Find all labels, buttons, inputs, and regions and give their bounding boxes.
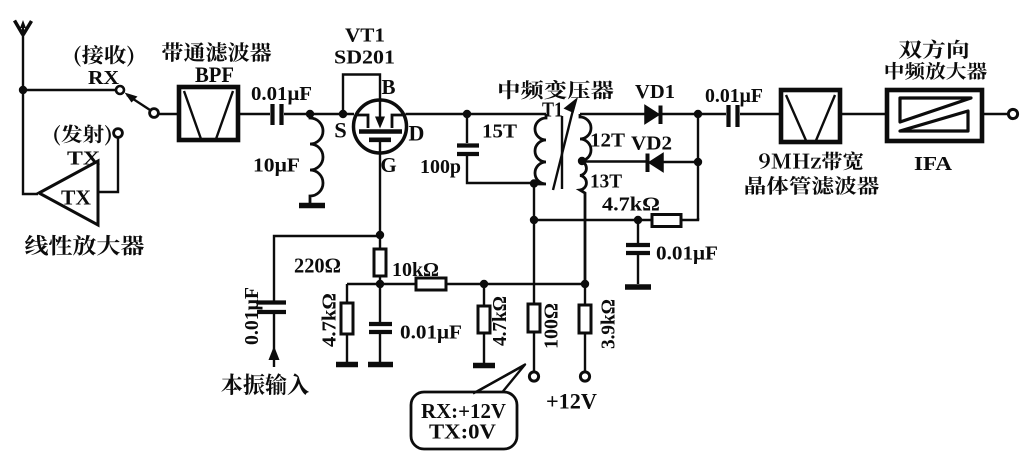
filter 9MHz crystal filter box (781, 90, 840, 142)
ground (4.7kΩ left) (336, 362, 358, 368)
junction S/B node (339, 110, 347, 118)
capacitor 0.01μF gate bypass (379, 284, 381, 322)
junction secondary tap (578, 157, 586, 165)
svg-text:TX: TX (61, 186, 91, 210)
svg-text:0.01μF: 0.01μF (705, 85, 763, 107)
label (接收) (75, 45, 134, 67)
diode VD2 (649, 154, 663, 172)
label 晶体管滤波器 (745, 176, 878, 195)
TX input terminal (114, 129, 123, 138)
callout bubble RX:+12V TX:0V (411, 392, 517, 449)
label 中频变压器 (499, 80, 613, 99)
svg-text:TX:0V: TX:0V (429, 420, 496, 444)
wire R5 to right bus (681, 218, 698, 220)
junction primary bottom node (530, 179, 538, 187)
svg-text:0.01μF: 0.01μF (400, 322, 462, 344)
junction 3.9k node (581, 280, 589, 288)
label 双方向 (899, 40, 969, 59)
svg-text:0.01μF: 0.01μF (656, 243, 718, 265)
svg-text:IFA: IFA (914, 153, 953, 175)
wire B electrode loop to S node (343, 75, 380, 115)
junction LO injection node (376, 231, 384, 239)
capacitor C1 0.01μF (273, 104, 282, 125)
junction 0.01μF (C3) tap (634, 216, 642, 224)
wire VD1 node to C4 (698, 113, 726, 115)
capacitor C4 0.01μF (729, 105, 738, 127)
capacitor 100p (466, 114, 468, 143)
transformer core (561, 116, 563, 189)
amplifier IFA box (887, 90, 982, 141)
label 9MHz带宽 (759, 152, 863, 171)
filter BPF box (179, 87, 238, 140)
svg-text:4.7kΩ: 4.7kΩ (602, 194, 660, 216)
LO input lead with arrow (273, 314, 275, 367)
junction bias row left (530, 216, 538, 224)
svg-text:220Ω: 220Ω (294, 254, 341, 278)
control terminal (RX/TX voltage) (529, 372, 538, 381)
wire tap to VD2 (582, 160, 646, 162)
svg-text:G: G (380, 153, 396, 177)
resistor 3.9kΩ vertical (584, 284, 586, 371)
switch RX fixed contact (116, 86, 124, 94)
tuning arrow through transformer (553, 106, 574, 190)
wire C1 to MOSFET source (284, 113, 354, 115)
svg-text:D: D (409, 121, 425, 146)
label 带通滤波器 (162, 42, 271, 62)
svg-text:+12V: +12V (546, 389, 597, 414)
resistor 100Ω vertical (533, 304, 535, 371)
capacitor C3 0.01μF (637, 220, 639, 243)
wire C4 to crystal filter (740, 113, 779, 115)
wire switch pole to BPF (159, 113, 177, 115)
label 线性放大器 (25, 235, 144, 256)
svg-text:4.7kΩ: 4.7kΩ (319, 293, 341, 347)
junction choke node (306, 110, 314, 118)
svg-text:SD201: SD201 (334, 47, 395, 69)
amplifier 线性放大器 (TX linear amp) triangle (39, 161, 98, 225)
svg-text:10μF: 10μF (253, 155, 300, 177)
switch pole terminal (150, 109, 159, 118)
svg-text:BPF: BPF (195, 62, 234, 87)
junction gate bias node (376, 280, 384, 288)
label 中频放大器 (886, 62, 987, 80)
inductor 10μF choke (310, 114, 323, 203)
ground (C3) (625, 284, 651, 290)
svg-text:3.9kΩ: 3.9kΩ (598, 299, 620, 349)
MOSFET internals: S/D leads, channel, bulk arrow, gate (355, 100, 405, 152)
wire antenna node down to TX amp input (23, 90, 38, 194)
transistor VT1 MOSFET body circle (354, 100, 407, 153)
svg-text:100Ω: 100Ω (541, 303, 563, 349)
wire TX terminal to amp output (98, 138, 118, 193)
output terminal (1008, 109, 1017, 118)
wire antenna node to RX switch contact (23, 89, 115, 91)
svg-text:RX: RX (88, 67, 120, 89)
junction right 4.7k node (480, 280, 488, 288)
wire primary-bottom bus down (533, 183, 535, 304)
svg-text:4.7kΩ: 4.7kΩ (489, 296, 511, 346)
svg-text:0.01μF: 0.01μF (241, 287, 263, 345)
wire bias rail (347, 283, 586, 285)
label (发射) (54, 125, 111, 146)
junction 100p node (463, 110, 471, 118)
resistor 4.7kΩ left vertical (346, 284, 348, 303)
antenna (15, 20, 32, 35)
resistor 4.7kΩ right vertical (483, 284, 485, 306)
capacitor 0.01μF LO coupling (257, 303, 286, 313)
ground (4.7kΩ right) (473, 363, 495, 369)
wire BPF to C1 (240, 113, 270, 115)
resistor 10kΩ horizontal (416, 278, 446, 290)
svg-text:100p: 100p (420, 156, 461, 178)
resistor 220Ω vertical (374, 249, 386, 276)
svg-text:VD2: VD2 (631, 133, 672, 155)
svg-text:12T: 12T (590, 130, 626, 152)
svg-text:VD1: VD1 (635, 81, 675, 103)
wire secondary top to VD1 (580, 113, 645, 115)
wire LO coupling to gate node (274, 236, 380, 303)
resistor R5 4.7kΩ horizontal (652, 215, 681, 227)
wire bias row (534, 219, 652, 221)
wire filter to IFA (840, 113, 885, 115)
switch arm with arrow (127, 95, 150, 110)
svg-text:S: S (334, 118, 347, 143)
wire IFA to output (982, 113, 1008, 115)
svg-text:13T: 13T (590, 171, 623, 193)
wire gate down (379, 152, 381, 249)
+12V terminal (580, 372, 589, 381)
wire antenna down to RX/TX node (22, 33, 24, 90)
wire right bus vertical (697, 114, 699, 220)
junction antenna node (19, 86, 27, 94)
ground (gate bypass cap) (368, 362, 393, 368)
wire drain to transformer primary (406, 113, 547, 115)
svg-text:0.01μF: 0.01μF (251, 83, 312, 105)
callout tail (471, 365, 525, 396)
transformer T1 secondary winding (12T+13T) (580, 114, 591, 284)
transformer T1 primary winding (534, 114, 546, 184)
svg-text:15T: 15T (482, 121, 518, 143)
svg-text:VT1: VT1 (345, 25, 385, 47)
junction VD2 out (694, 158, 702, 166)
svg-text:B: B (381, 75, 395, 99)
ground (choke) (299, 203, 325, 209)
junction VD1 out (694, 110, 702, 118)
diode VD1 (645, 106, 659, 124)
label 本振输入 (221, 373, 308, 395)
